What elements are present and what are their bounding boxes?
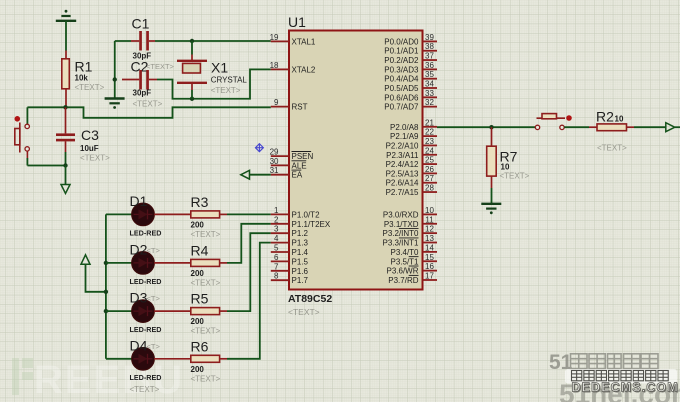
svg-text:<TEXT>: <TEXT> <box>133 100 163 109</box>
svg-text:10: 10 <box>501 163 510 172</box>
junction R7 top <box>489 125 493 129</box>
svg-text:<T>: <T> <box>147 246 161 255</box>
pin 3 P1.2 <box>271 232 289 234</box>
LED D1 <box>106 213 132 215</box>
pin 33 P0.6/AD6 <box>423 96 438 98</box>
svg-text:38: 38 <box>425 42 434 51</box>
LED D3 <box>104 309 108 313</box>
wire R6 to P1.3 <box>227 243 271 359</box>
svg-text:26: 26 <box>425 165 434 174</box>
wire RST net (button/R1/C3 to RST pin, jog under ground) <box>27 107 270 118</box>
svg-text:32: 32 <box>425 98 434 107</box>
svg-text:3: 3 <box>274 225 279 234</box>
svg-text:10k: 10k <box>75 74 89 83</box>
crystal X1 <box>191 41 193 55</box>
svg-text:200: 200 <box>191 365 205 374</box>
ground (under C2) <box>105 99 125 109</box>
svg-text:<TEXT>: <TEXT> <box>191 230 221 239</box>
arrow terminal (down) <box>65 166 67 185</box>
svg-text:P1.2: P1.2 <box>292 229 309 238</box>
svg-text:P3.4/T0: P3.4/T0 <box>390 248 419 257</box>
pin 15 P3.5/T1 <box>423 260 438 262</box>
svg-text:6: 6 <box>274 253 279 262</box>
pin 11 P3.1/TXD <box>423 223 438 225</box>
pin 14 P3.4/T0 <box>423 251 438 253</box>
wire R5 to P1.2 <box>227 233 271 311</box>
pin 22 P2.1/A9 <box>423 135 438 137</box>
svg-text:R4: R4 <box>191 242 209 258</box>
svg-text:9: 9 <box>274 98 279 107</box>
svg-text:22: 22 <box>425 128 434 137</box>
pin 13 P3.3/INT1 <box>423 242 438 244</box>
junction R1/C3/RST <box>63 105 67 109</box>
pin 18 XTAL2 <box>271 68 289 70</box>
ground (under R7) <box>481 204 501 214</box>
wire R2 to arrow <box>634 126 666 128</box>
svg-text:<T>: <T> <box>147 294 161 303</box>
pin 27 P2.6/A14 <box>423 182 438 184</box>
pin 7 P1.6 <box>271 270 289 272</box>
svg-text:<TEXT>: <TEXT> <box>75 83 105 92</box>
wire R1 top to ground <box>65 21 67 51</box>
svg-text:2: 2 <box>274 215 279 224</box>
svg-text:R5: R5 <box>191 291 209 307</box>
svg-text:P2.5/A13: P2.5/A13 <box>386 169 419 178</box>
resistor R5 <box>154 310 191 312</box>
svg-text:18: 18 <box>270 61 279 70</box>
pin 36 P0.3/AD3 <box>423 68 438 70</box>
wire P2.0 net <box>437 126 535 128</box>
ground (top, above R1) <box>56 10 76 21</box>
svg-text:200: 200 <box>191 317 205 326</box>
svg-text:P1.3: P1.3 <box>292 239 309 248</box>
svg-text:R2: R2 <box>596 109 614 125</box>
wire C1 left to rail <box>115 40 131 42</box>
svg-text:RST: RST <box>292 103 308 112</box>
capacitor C3 <box>65 107 67 133</box>
pin 19 XTAL1 <box>271 40 289 42</box>
svg-text:<TEXT>: <TEXT> <box>146 62 175 71</box>
resistor R3 <box>154 213 191 215</box>
svg-text:XTAL1: XTAL1 <box>292 37 316 46</box>
arrow terminal (up) into rail <box>81 255 90 264</box>
svg-text:1: 1 <box>274 206 279 215</box>
svg-text:21: 21 <box>425 118 434 127</box>
pin 35 P0.4/AD4 <box>423 78 438 80</box>
svg-text:24: 24 <box>425 146 434 155</box>
svg-text:<TEXT>: <TEXT> <box>211 86 241 95</box>
svg-text:P3.6/WR: P3.6/WR <box>386 267 418 276</box>
svg-text:39: 39 <box>425 33 434 42</box>
junction X1 top <box>190 39 194 43</box>
svg-text:14: 14 <box>425 243 434 252</box>
LED D2 <box>104 261 108 265</box>
svg-text:P1.6: P1.6 <box>292 267 309 276</box>
svg-text:P2.0/A8: P2.0/A8 <box>390 123 419 132</box>
svg-text:LED-RED: LED-RED <box>130 277 162 286</box>
svg-text:DEDECMS.COM: DEDECMS.COM <box>572 381 679 395</box>
svg-text:P3.3/INT1: P3.3/INT1 <box>382 239 419 248</box>
svg-text:<TEXT>: <TEXT> <box>191 374 221 383</box>
svg-text:11: 11 <box>425 215 434 224</box>
arrow terminal EA (left) <box>250 174 271 176</box>
wire C2 right to XTAL2 <box>157 69 271 98</box>
pin 17 P3.7/RD <box>423 279 438 281</box>
svg-text:XTAL2: XTAL2 <box>292 65 316 74</box>
resistor R2 <box>564 126 589 128</box>
svg-text:10: 10 <box>615 115 624 124</box>
svg-text:P3.7/RD: P3.7/RD <box>388 276 418 285</box>
svg-text:P3.2/INT0: P3.2/INT0 <box>382 229 419 238</box>
wire R7 to ground <box>491 188 493 204</box>
svg-text:P2.6/A14: P2.6/A14 <box>386 179 419 188</box>
pin 32 P0.7/AD7 <box>423 106 438 108</box>
svg-text:P0.4/AD4: P0.4/AD4 <box>384 75 419 84</box>
svg-text:P2.1/A9: P2.1/A9 <box>390 132 419 141</box>
pin 1 P1.0/T2 <box>271 213 289 215</box>
svg-text:36: 36 <box>425 61 434 70</box>
no-connect marker (blue) <box>255 144 263 152</box>
svg-text:P1.5: P1.5 <box>292 257 309 266</box>
svg-text:D4: D4 <box>130 337 148 353</box>
svg-text:15: 15 <box>425 253 434 262</box>
resistor R4 <box>154 262 191 264</box>
watermark bottom-left <box>12 358 184 402</box>
svg-text:33: 33 <box>425 89 434 98</box>
svg-text:10: 10 <box>425 206 434 215</box>
svg-text:P0.6/AD6: P0.6/AD6 <box>384 93 419 102</box>
svg-text:12: 12 <box>425 225 434 234</box>
pin 26 P2.5/A13 <box>423 172 438 174</box>
junction C2 left <box>113 77 117 81</box>
svg-text:19: 19 <box>270 33 279 42</box>
svg-text:8: 8 <box>274 272 279 281</box>
svg-text:X1: X1 <box>211 60 228 76</box>
svg-text:37: 37 <box>425 52 434 61</box>
pin 28 P2.7/A15 <box>423 191 438 193</box>
push button (right) <box>535 114 572 130</box>
svg-text:28: 28 <box>425 184 434 193</box>
wire rail C1/C2 to ground <box>114 41 116 98</box>
svg-text:C3: C3 <box>81 127 99 143</box>
svg-text:27: 27 <box>425 174 434 183</box>
svg-text:200: 200 <box>191 220 205 229</box>
pin 10 P3.0/RXD <box>423 213 438 215</box>
pin 25 P2.4/A12 <box>423 163 438 165</box>
svg-text:P3.5/T1: P3.5/T1 <box>390 257 419 266</box>
svg-text:P0.2/AD2: P0.2/AD2 <box>384 56 419 65</box>
svg-text:P2.7/A15: P2.7/A15 <box>386 188 419 197</box>
svg-text:23: 23 <box>425 137 434 146</box>
svg-text:C1: C1 <box>132 16 150 32</box>
svg-text:P0.0/AD0: P0.0/AD0 <box>384 37 419 46</box>
svg-text:CRYSTAL: CRYSTAL <box>211 76 248 85</box>
svg-text:R3: R3 <box>191 194 209 210</box>
svg-text:200: 200 <box>191 269 205 278</box>
wire button bottom to C3 bottom <box>27 165 65 167</box>
svg-text:35: 35 <box>425 70 434 79</box>
svg-text:ALE: ALE <box>292 161 307 170</box>
svg-text:<T>: <T> <box>147 342 161 351</box>
svg-text:P3.1/TXD: P3.1/TXD <box>384 220 419 229</box>
svg-text:REEBU: REEBU <box>34 358 184 402</box>
pin 12 P3.2/INT0 <box>423 232 438 234</box>
svg-text:16: 16 <box>425 262 434 271</box>
pin 34 P0.5/AD5 <box>423 87 438 89</box>
svg-text:EA: EA <box>292 171 303 180</box>
wire XTAL1 net (pin19 to C1/X1) <box>155 40 271 42</box>
pin 37 P0.2/AD2 <box>423 59 438 61</box>
svg-text:LED-RED: LED-RED <box>130 228 162 237</box>
svg-text:AT89C52: AT89C52 <box>288 293 332 305</box>
svg-text:P2.2/A10: P2.2/A10 <box>386 141 419 150</box>
pin 30 ALE <box>271 164 289 166</box>
svg-text:P0.1/AD1: P0.1/AD1 <box>384 47 419 56</box>
svg-text:<TEXT>: <TEXT> <box>191 327 221 336</box>
pin 29 PSEN <box>271 155 289 157</box>
svg-text:P0.7/AD7: P0.7/AD7 <box>384 103 419 112</box>
svg-text:P1.4: P1.4 <box>292 248 309 257</box>
LED D4 <box>106 358 132 360</box>
svg-text:4: 4 <box>274 234 279 243</box>
pin 39 P0.0/AD0 <box>423 40 438 42</box>
push button (left) <box>14 107 29 165</box>
svg-text:P2.3/A11: P2.3/A11 <box>386 151 419 160</box>
svg-text:13: 13 <box>425 234 434 243</box>
svg-text:PSEN: PSEN <box>292 152 314 161</box>
svg-text:P1.1/T2EX: P1.1/T2EX <box>292 220 331 229</box>
svg-text:P3.0/RXD: P3.0/RXD <box>383 210 419 219</box>
pin 5 P1.4 <box>271 251 289 253</box>
svg-text:<TEXT>: <TEXT> <box>191 278 221 287</box>
svg-text:LED-RED: LED-RED <box>130 325 162 334</box>
svg-text:R1: R1 <box>75 59 93 75</box>
svg-text:P0.5/AD5: P0.5/AD5 <box>384 84 419 93</box>
svg-text:<TEXT>: <TEXT> <box>130 385 160 394</box>
svg-text:31: 31 <box>270 166 279 175</box>
svg-text:34: 34 <box>425 80 434 89</box>
svg-text:P2.4/A12: P2.4/A12 <box>386 160 419 169</box>
pin 9 RST <box>271 106 289 108</box>
svg-text:30pF: 30pF <box>133 89 152 98</box>
svg-text:<TEXT>: <TEXT> <box>500 172 530 181</box>
resistor R1 <box>65 51 67 59</box>
svg-text:P1.0/T2: P1.0/T2 <box>292 210 321 219</box>
resistor R6 <box>154 358 191 360</box>
pin 38 P0.1/AD1 <box>423 50 438 52</box>
pin 6 P1.5 <box>271 260 289 262</box>
pin 4 P1.3 <box>271 242 289 244</box>
svg-text:P1.7: P1.7 <box>292 276 309 285</box>
pin 16 P3.6/WR <box>423 270 438 272</box>
svg-text:R6: R6 <box>191 338 209 354</box>
wire R3 to P1.0 <box>227 213 271 215</box>
pin 8 P1.7 <box>271 279 289 281</box>
resistor R7 <box>491 127 493 146</box>
watermark CMS line (white glow) <box>565 369 677 384</box>
svg-text:7: 7 <box>274 262 279 271</box>
svg-text:P0.3/AD3: P0.3/AD3 <box>384 65 419 74</box>
pin 24 P2.3/A11 <box>423 154 438 156</box>
IC U1 AT89C52 <box>289 31 423 290</box>
svg-text:30: 30 <box>270 157 279 166</box>
svg-text:10uF: 10uF <box>80 144 99 153</box>
LED anode rail <box>105 214 107 358</box>
wire R4 to P1.1 <box>227 224 271 263</box>
svg-text:25: 25 <box>425 156 434 165</box>
capacitor C1 <box>131 40 139 42</box>
pin 31 EA <box>271 174 289 176</box>
svg-text:U1: U1 <box>288 14 306 30</box>
svg-text:LED-RED: LED-RED <box>130 373 162 382</box>
svg-text:29: 29 <box>270 148 279 157</box>
pin 21 P2.0/A8 <box>423 126 438 128</box>
svg-text:<TEXT>: <TEXT> <box>597 144 627 153</box>
arrow terminal (right) <box>666 123 675 132</box>
svg-text:<TEXT>: <TEXT> <box>80 154 110 163</box>
pin 23 P2.2/A10 <box>423 144 438 146</box>
svg-text:5: 5 <box>274 244 279 253</box>
svg-text:D2: D2 <box>130 241 148 257</box>
watermark 51 forum (gray CJK simulated) <box>549 351 658 374</box>
svg-text:17: 17 <box>425 271 434 280</box>
junction X1 bottom <box>190 97 194 101</box>
junction C3 bottom <box>63 163 67 167</box>
svg-text:D1: D1 <box>130 193 148 209</box>
pin 2 P1.1/T2EX <box>271 223 289 225</box>
svg-text:<TEXT>: <TEXT> <box>288 307 320 317</box>
svg-text:D3: D3 <box>130 290 148 306</box>
